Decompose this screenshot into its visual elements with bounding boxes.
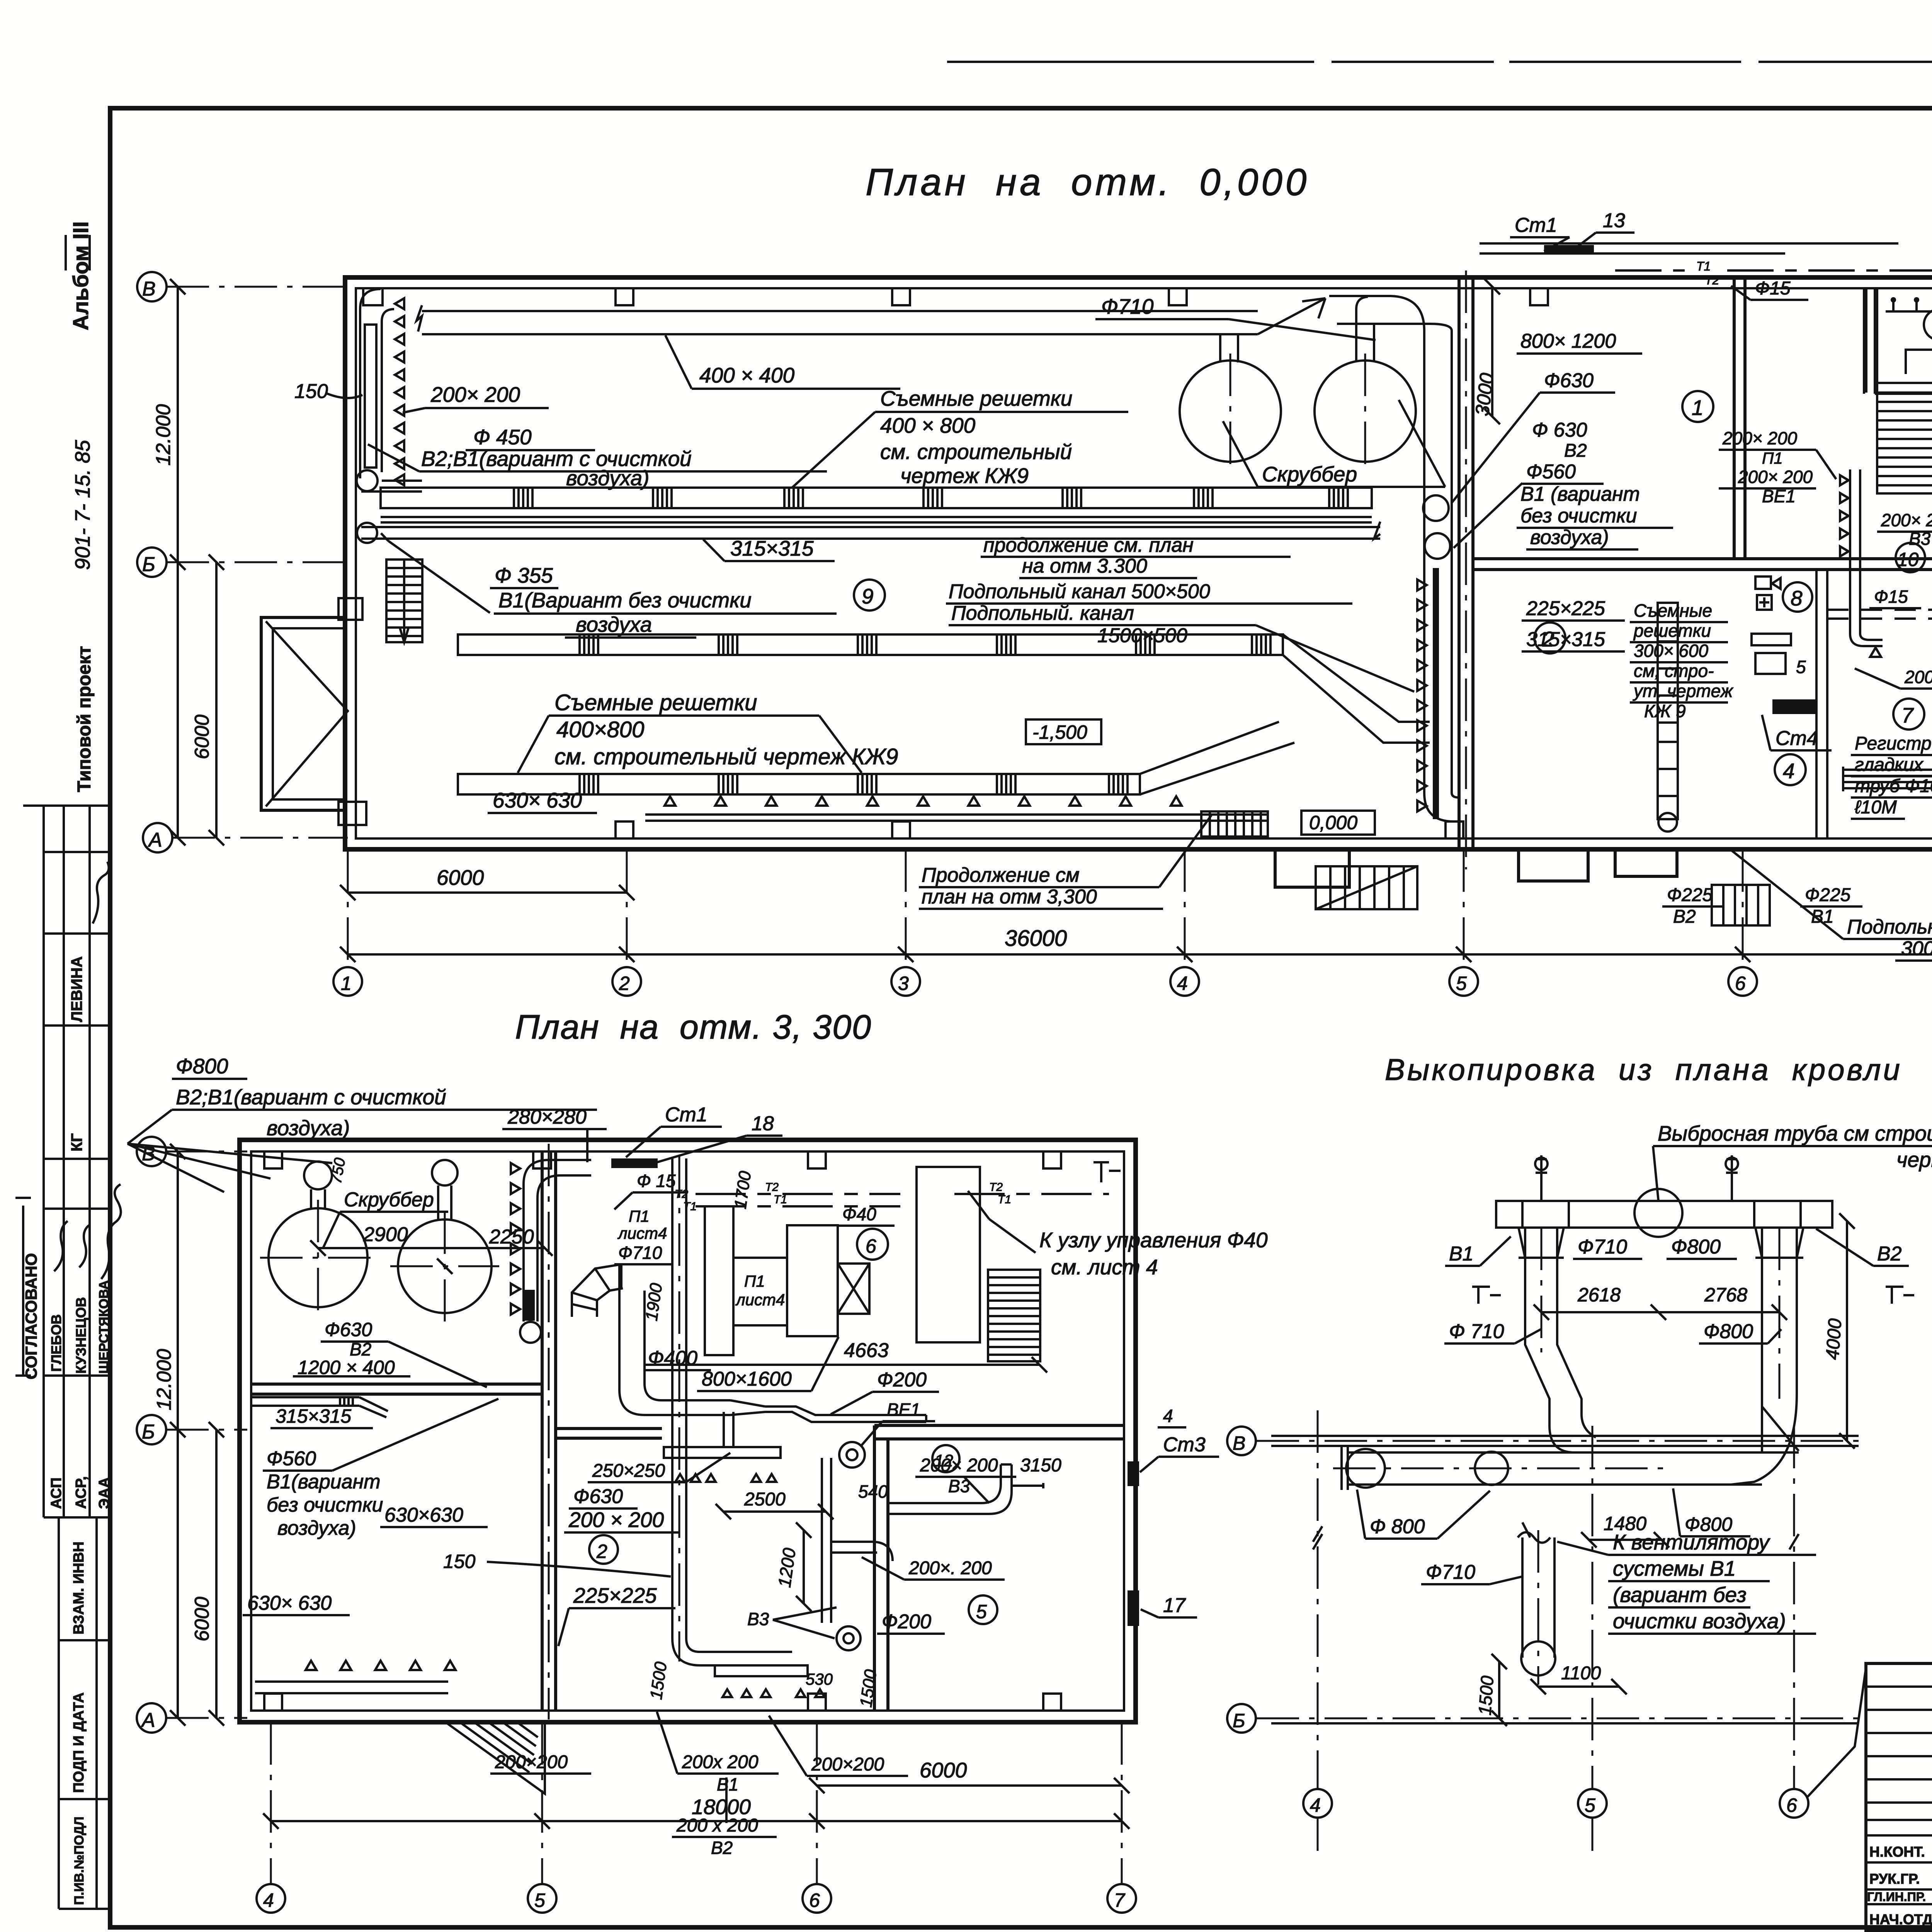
svg-text:лист4: лист4: [735, 1291, 785, 1309]
isolated duct break top: [1518, 1522, 1550, 1543]
roof axis V wall line: [1271, 1436, 1859, 1446]
leader 150 plan2: [487, 1562, 671, 1577]
svg-text:(вариант без: (вариант без: [1613, 1583, 1747, 1607]
dim line 4000: [1839, 1213, 1855, 1449]
roof axis B wall line: [1271, 1722, 1859, 1725]
scrubber right pipe: [1356, 297, 1374, 361]
svg-text:10: 10: [1897, 549, 1919, 570]
svg-text:Т2: Т2: [675, 1188, 688, 1201]
svg-text:12: 12: [934, 1451, 953, 1470]
grille band 3: [458, 774, 1140, 794]
riser duct plan2: [524, 1160, 591, 1321]
underline F225 V1: [1800, 905, 1862, 908]
section mark T left: [1472, 1287, 1501, 1304]
scrubber tank left: [1180, 361, 1281, 462]
svg-text:чертеж км 11: чертеж км 11: [1896, 1148, 1932, 1172]
left bay diagonals: [266, 621, 348, 806]
svg-text:без очистки: без очистки: [1520, 505, 1637, 527]
chimney candle left: [1536, 1155, 1547, 1201]
svg-text:П.ИВ.№ПОДЛ: П.ИВ.№ПОДЛ: [72, 1816, 87, 1905]
svg-text:150: 150: [294, 380, 328, 403]
leader V1 roof: [1445, 1236, 1511, 1266]
scrubber left pipe: [1220, 335, 1238, 362]
svg-text:КГ: КГ: [68, 1133, 85, 1151]
outside stairs plan2: [446, 1722, 545, 1794]
svg-text:Ф710: Ф710: [618, 1243, 662, 1263]
svg-text:В: В: [142, 278, 156, 300]
svg-text:5: 5: [1585, 1794, 1595, 1816]
riser inner plate: [365, 325, 376, 468]
svg-text:1500: 1500: [856, 1668, 880, 1708]
black bar st3 plan2: [1128, 1461, 1139, 1486]
duct snake mid plan2: [672, 1158, 792, 1665]
level box -1.500: [1026, 719, 1101, 744]
thin duct to BE1: [765, 1406, 926, 1422]
black bar 17 plan2: [1128, 1590, 1139, 1626]
svg-text:200×. 200: 200×. 200: [908, 1558, 992, 1578]
top band line: [947, 61, 1932, 63]
svg-text:Выкопировка из плана кровли: Выкопировка из плана кровли: [1385, 1053, 1902, 1087]
underline variant: [368, 444, 827, 471]
svg-text:ВЗАМ. ИНВН: ВЗАМ. ИНВН: [71, 1541, 87, 1634]
underline 225x225: [1522, 619, 1625, 622]
slab ticks: [1522, 1201, 1801, 1228]
svg-text:очистки воздуха): очистки воздуха): [1613, 1609, 1786, 1633]
underline 250x250: [588, 1453, 730, 1482]
svg-text:П1: П1: [629, 1207, 650, 1225]
svg-text:см. строительный чертеж КЖ9: см. строительный чертеж КЖ9: [554, 744, 898, 769]
underline F15 plan2: [614, 1192, 686, 1209]
plan2 axis circle B: [137, 1415, 166, 1444]
svg-text:12.000: 12.000: [153, 1349, 175, 1410]
signature squiggle 1: [93, 862, 109, 923]
room circle 6 plan2: [857, 1229, 888, 1260]
duct elbow to V3 fan: [831, 1542, 893, 1561]
svg-text:КЖ 9: КЖ 9: [1644, 701, 1686, 721]
underline F710 plan2: [614, 1263, 672, 1265]
AHU filter box: [705, 1206, 733, 1355]
svg-text:Скруббер: Скруббер: [1262, 462, 1357, 486]
mid wall segment axis B plan2: [556, 1429, 662, 1438]
plan2 dim 18000: [263, 1813, 1129, 1829]
riser bottom turn: [1424, 793, 1459, 821]
plan2 top piers: [264, 1151, 1061, 1168]
svg-text:6000: 6000: [920, 1758, 967, 1782]
svg-text:400×800: 400×800: [556, 717, 644, 742]
svg-text:К вентилятору: К вентилятору: [1613, 1530, 1770, 1554]
SEC:TABLE: [1866, 1663, 1932, 1932]
wall right rooms horizontal: [874, 1425, 1124, 1439]
AHU main box: [787, 1225, 838, 1336]
pipe circle 1: [1346, 1449, 1385, 1488]
louvre block: [988, 1270, 1040, 1361]
elbow duct room5: [888, 1464, 1012, 1514]
svg-text:1200: 1200: [774, 1546, 799, 1588]
svg-text:2500: 2500: [744, 1489, 786, 1510]
svg-text:200× 200: 200× 200: [1722, 428, 1798, 448]
svg-text:1200 × 400: 1200 × 400: [298, 1357, 395, 1378]
svg-text:200х 200: 200х 200: [682, 1752, 759, 1772]
svg-text:решетки: решетки: [1633, 621, 1711, 641]
svg-text:продолжение см. план: продолжение см. план: [983, 534, 1194, 556]
dim line 1200: [796, 1522, 811, 1611]
SEC:PLAN2: [1227, 1053, 1932, 1851]
underline st1 plan2: [626, 1127, 722, 1157]
dim line 6000 left: [209, 554, 224, 845]
svg-text:315×315: 315×315: [1526, 628, 1605, 651]
svg-text:воздуха: воздуха: [576, 612, 652, 636]
svg-text:-1,500: -1,500: [1032, 721, 1087, 743]
svg-text:Б: Б: [142, 1421, 155, 1443]
svg-text:Ф710: Ф710: [1101, 294, 1154, 318]
duct triangle room10: [1870, 648, 1881, 657]
grille band 2: [458, 634, 1283, 655]
slab circle: [1634, 1189, 1682, 1237]
room circle 8: [1783, 582, 1812, 612]
svg-text:П1: П1: [1762, 449, 1783, 467]
plan2 axis circle 7: [1107, 1884, 1136, 1913]
roof axis V circle: [1227, 1427, 1256, 1455]
wc sink rect: [1752, 634, 1791, 645]
isolated duct: [1522, 1537, 1554, 1658]
svg-text:1700: 1700: [731, 1170, 755, 1210]
room circle 4: [1775, 754, 1806, 785]
axis circle 6: [1728, 967, 1757, 996]
break mark axis6: [1789, 1534, 1799, 1549]
partition below B to bottom: [1816, 570, 1827, 838]
SEC:FRAME: [15, 221, 121, 1909]
break mark axis4: [1313, 1526, 1322, 1549]
dim 3000 vertical: [1485, 279, 1500, 424]
underline F800 right duct: [1699, 1329, 1781, 1344]
svg-text:лист4: лист4: [617, 1224, 667, 1242]
svg-text:200×200: 200×200: [811, 1754, 884, 1775]
svg-text:см. лист 4: см. лист 4: [1051, 1255, 1158, 1279]
svg-text:В1(Вариант без очистки: В1(Вариант без очистки: [498, 588, 752, 612]
vent duct room10: [1850, 469, 1883, 646]
AHU x-cross: [838, 1264, 869, 1314]
room3 wall vertical: [1864, 288, 1875, 394]
hatch triangles plan2 left: [511, 1163, 520, 1315]
partition axis5 plan2: [542, 1151, 556, 1711]
underline F800 pipe left: [1357, 1490, 1490, 1539]
svg-text:150: 150: [443, 1551, 476, 1572]
plan2 dim 6000: [209, 1422, 224, 1726]
band3 hatch clusters: [580, 774, 1128, 794]
underline 200x200 b: [862, 1557, 1005, 1580]
svg-text:А: А: [141, 1709, 155, 1731]
band2 hatch clusters: [580, 634, 1270, 655]
axis 6 leader: [1808, 1665, 1866, 1797]
svg-text:400 × 800: 400 × 800: [880, 413, 976, 437]
svg-text:5: 5: [1456, 973, 1467, 994]
leader syemnye2: [518, 716, 862, 773]
svg-text:630×630: 630×630: [384, 1504, 463, 1526]
axis circle V: [137, 272, 167, 301]
roof axis V line: [1257, 1440, 1859, 1442]
svg-text:Выбросная труба см строительны: Выбросная труба см строительный: [1658, 1121, 1932, 1145]
dim line 1100: [1531, 1679, 1627, 1694]
svg-text:В2: В2: [1877, 1243, 1902, 1265]
svg-text:Подпольный канал 500×500: Подпольный канал 500×500: [949, 580, 1210, 603]
svg-text:воздуха): воздуха): [267, 1116, 350, 1140]
svg-text:без очистки: без очистки: [267, 1494, 383, 1516]
band1 hatch clusters: [514, 488, 1348, 508]
room3 wall horizontal: [1875, 383, 1932, 394]
svg-text:630× 630: 630× 630: [247, 1592, 332, 1614]
svg-text:Ф 630: Ф 630: [1532, 419, 1587, 441]
stairs bottom hatch inside: [1201, 811, 1268, 837]
hatch triangles column left: [395, 298, 404, 485]
svg-text:4663: 4663: [844, 1339, 889, 1362]
wc fixture 2: [1757, 595, 1772, 610]
duct room5 horizontal end: [1012, 1483, 1043, 1488]
underline vybrosnaya roof: [1653, 1146, 1932, 1201]
scrubber left top pipe: [304, 1162, 332, 1189]
svg-text:Ст1: Ст1: [1515, 214, 1557, 236]
isolated duct centerline: [1537, 1530, 1539, 1685]
building inner wall: [356, 288, 1932, 838]
svg-text:Н.КОНТ.: Н.КОНТ.: [1869, 1844, 1925, 1860]
register pipes room7: [1843, 767, 1932, 791]
underline 200x200: [403, 408, 549, 413]
svg-text:Ф225: Ф225: [1667, 885, 1713, 905]
underline BE1: [862, 1421, 935, 1445]
axis circle 2: [612, 967, 641, 996]
plan2 outer wall: [240, 1140, 1136, 1722]
svg-text:Подпольный. канал: Подпольный. канал: [951, 602, 1134, 624]
svg-text:4: 4: [1783, 759, 1795, 783]
svg-text:Т2: Т2: [765, 1181, 779, 1194]
svg-text:План на отм. 3, 300: План на отм. 3, 300: [515, 1008, 872, 1046]
room2 bottom circles: [1658, 813, 1677, 832]
underline 200x200 stack: [1719, 450, 1836, 488]
svg-text:901- 7- 15. 85: 901- 7- 15. 85: [71, 440, 94, 570]
dim line 36000: [340, 947, 1932, 962]
plan2 dim 12000: [170, 1144, 185, 1726]
underline F15: [1731, 286, 1808, 300]
svg-text:Ф 800: Ф 800: [1370, 1515, 1425, 1538]
underlines k ventilyatoru: [1557, 1542, 1816, 1634]
svg-text:В2: В2: [1564, 440, 1587, 461]
svg-text:Ф200: Ф200: [882, 1611, 931, 1633]
plan2 axis circle 5: [528, 1884, 556, 1913]
room circle 5 plan2: [969, 1595, 997, 1624]
axis circle A: [143, 823, 172, 852]
snake centerline plan2: [679, 1155, 680, 1662]
duct 315x315: [361, 522, 1380, 539]
riser circle plan2: [520, 1322, 541, 1343]
svg-text:ГЛ.ИН.ПР.: ГЛ.ИН.ПР.: [1867, 1890, 1926, 1904]
underline st3 right: [1140, 1457, 1219, 1472]
svg-text:4: 4: [263, 1889, 274, 1911]
svg-text:чертеж КЖ9: чертеж КЖ9: [900, 464, 1029, 488]
plan2 bottom axis stems: [271, 1722, 1122, 1884]
svg-text:Ф 15: Ф 15: [637, 1171, 676, 1191]
svg-text:Т2: Т2: [1705, 273, 1719, 287]
plan2 axis circle A: [137, 1703, 166, 1733]
dim line 1500 roof: [1492, 1654, 1507, 1726]
underline 4 right: [1158, 1426, 1186, 1429]
svg-text:3: 3: [898, 973, 909, 994]
scrubber tank right axis: [1364, 354, 1366, 469]
hatch triangles column right: [1417, 580, 1427, 811]
svg-text:ℓ10М: ℓ10М: [1854, 797, 1897, 818]
svg-text:ЭАА: ЭАА: [96, 1477, 112, 1509]
AHU x-box: [838, 1264, 869, 1314]
riser circle upper: [1423, 495, 1449, 521]
underline F710: [1095, 319, 1376, 340]
svg-text:300× 600: 300× 600: [1634, 641, 1709, 661]
stamp table verticals: [44, 806, 90, 1517]
svg-text:А: А: [148, 829, 162, 851]
underline 18: [657, 1136, 782, 1162]
outside stairs bottom: [1316, 866, 1417, 909]
triangles under snake: [723, 1689, 825, 1697]
room circle 12: [932, 1445, 959, 1472]
left wall pier lower: [338, 802, 366, 825]
wall axis B right wing: [1473, 559, 1932, 570]
heat unit loop room3: [1886, 301, 1932, 374]
pipe circle 2: [1475, 1452, 1508, 1485]
left duct vertical: [1525, 1228, 1582, 1426]
svg-text:530: 530: [806, 1670, 833, 1688]
svg-text:6000: 6000: [191, 714, 213, 759]
roof axis 4 stem: [1317, 1410, 1319, 1851]
svg-text:8: 8: [1791, 586, 1803, 610]
axis circle B: [137, 548, 167, 577]
svg-text:воздуха): воздуха): [566, 466, 650, 490]
svg-text:Ф560: Ф560: [267, 1447, 316, 1470]
svg-text:9: 9: [862, 584, 874, 608]
svg-text:В: В: [142, 1143, 155, 1165]
underline F400: [643, 1369, 711, 1371]
svg-text:5: 5: [534, 1889, 545, 1911]
dim line 1480: [1581, 1532, 1669, 1548]
svg-text:0,000: 0,000: [1309, 812, 1357, 833]
svg-text:6000: 6000: [191, 1597, 213, 1641]
underline F560 plan2: [263, 1399, 498, 1471]
isolated duct cap: [1521, 1641, 1555, 1675]
svg-text:200× 200: 200× 200: [430, 383, 520, 406]
underline F200 b: [877, 1633, 945, 1635]
svg-text:Ф15: Ф15: [1755, 278, 1791, 299]
svg-text:300 ×300: 300 ×300: [1901, 937, 1932, 960]
underline F710 isolated: [1421, 1577, 1522, 1584]
underline F710 left duct: [1444, 1329, 1541, 1344]
axis line B: [167, 561, 348, 563]
triangle row bottom: [665, 796, 1182, 806]
signature squiggle kuznetsov: [79, 1225, 90, 1267]
svg-text:ПОДП И ДАТА: ПОДП И ДАТА: [71, 1692, 87, 1793]
svg-text:6000: 6000: [437, 866, 484, 889]
strip top tick: [23, 804, 44, 807]
svg-text:Ф40: Ф40: [842, 1204, 876, 1224]
dim line 12000: [170, 279, 185, 845]
svg-text:К узлу управления Ф40: К узлу управления Ф40: [1039, 1228, 1268, 1252]
underline 800x1200: [1517, 352, 1642, 355]
left wall pier upper: [338, 598, 362, 620]
svg-text:1100: 1100: [1561, 1663, 1601, 1684]
svg-text:Ф400: Ф400: [648, 1347, 697, 1369]
svg-text:В3: В3: [948, 1476, 970, 1496]
scrubber leader: [1223, 400, 1445, 487]
svg-text:Ф800: Ф800: [1671, 1236, 1721, 1258]
underline F200: [831, 1392, 939, 1414]
section mark T right: [1886, 1287, 1914, 1304]
left duct bottom elbow: [1549, 1414, 1596, 1452]
signature squiggle glebov: [54, 1221, 68, 1271]
left bay walls: [261, 617, 345, 810]
stamp table upper: [44, 806, 110, 1517]
AHU mid box: [733, 1258, 787, 1325]
svg-text:Ф630: Ф630: [325, 1319, 372, 1340]
dashed underfloor channel right: [1827, 610, 1932, 619]
roof axis B line: [1257, 1718, 1859, 1719]
wc fixture 2 cross: [1759, 597, 1769, 607]
underline bottom note: [919, 815, 1211, 909]
svg-text:Типовой проект: Типовой проект: [74, 646, 95, 792]
plan2 dim 6000 bay: [809, 1778, 1129, 1793]
svg-text:РУК.ГР.: РУК.ГР.: [1869, 1871, 1920, 1887]
axis circle 1: [333, 967, 362, 996]
svg-text:800× 1200: 800× 1200: [1520, 330, 1616, 352]
plan2 axis lines: [166, 1151, 247, 1718]
svg-text:воздуха): воздуха): [277, 1517, 356, 1539]
left rows: [1866, 1687, 1932, 1904]
band3 jog: [1140, 722, 1294, 794]
underline 315x315 plan2: [270, 1427, 373, 1429]
underline 280x280: [502, 1129, 607, 1162]
underline F630: [1452, 393, 1615, 502]
triangle row plan2: [306, 1661, 456, 1670]
room circle 7: [1893, 699, 1924, 730]
svg-text:труб Ф100: труб Ф100: [1855, 776, 1932, 796]
thin pair under band1: [381, 517, 1372, 522]
underlines variant2: [1454, 483, 1673, 549]
underline 800x1600: [697, 1337, 838, 1391]
plan2 axis circle V: [137, 1137, 166, 1166]
underline 630x630 plan2b: [243, 1614, 350, 1616]
svg-text:200× 200: 200× 200: [1881, 510, 1932, 530]
stairs top-right: [1877, 393, 1932, 493]
dim line 2900: [310, 1240, 553, 1274]
scrubber left tank plan2: [269, 1208, 367, 1307]
svg-text:Продолжение см: Продолжение см: [922, 864, 1080, 886]
underline F630 plan2: [321, 1342, 487, 1387]
title block outer: [1866, 1663, 1932, 1931]
pipe left end plate: [1342, 1447, 1348, 1490]
axis circle 4: [1170, 967, 1199, 996]
svg-text:4000: 4000: [1822, 1318, 1845, 1361]
svg-text:1500: 1500: [1475, 1675, 1497, 1716]
svg-text:Ф200: Ф200: [877, 1369, 927, 1391]
svg-text:План на отм. 0,000: План на отм. 0,000: [866, 161, 1310, 203]
partition wall axis5: [1459, 277, 1473, 849]
roof axis 6 stem: [1793, 1426, 1795, 1789]
svg-text:12.000: 12.000: [152, 404, 175, 466]
wall horizontal left room: [251, 1384, 542, 1394]
svg-text:Т1: Т1: [774, 1193, 787, 1206]
svg-text:Т2: Т2: [989, 1181, 1003, 1194]
svg-text:Ф 450: Ф 450: [473, 425, 532, 449]
partition room1-room3: [1866, 288, 1877, 393]
underline 315x315 mid: [1522, 650, 1625, 653]
pipe centerline: [1333, 1468, 1669, 1469]
leader V2 roof: [1816, 1229, 1909, 1266]
svg-text:4: 4: [1177, 973, 1188, 994]
dim line 2500: [716, 1504, 833, 1519]
